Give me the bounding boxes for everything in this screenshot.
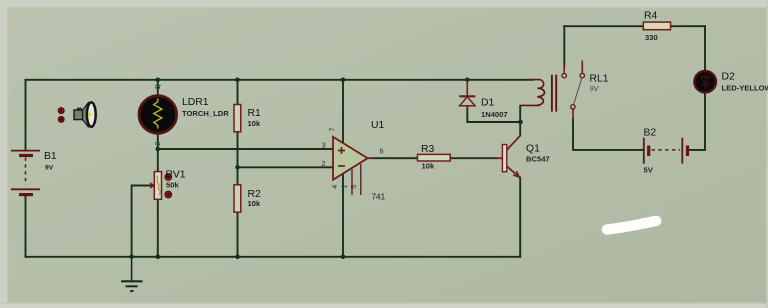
svg-text:D2: D2 [722, 72, 736, 83]
junction node B (R1 / R2 / pin 2) [235, 165, 240, 170]
wire B1 left vertical [25, 80, 27, 257]
LED D2 [694, 71, 716, 93]
relay coil RL1 [521, 75, 557, 112]
pin stub Q1 base [496, 157, 503, 159]
wire R3 to Q1 base [450, 157, 496, 159]
svg-text:5V: 5V [644, 166, 654, 175]
svg-text:10k: 10k [248, 199, 261, 208]
svg-text:10k: 10k [248, 119, 261, 128]
junction top rail / D1 cathode [465, 78, 470, 83]
junction top rail / LDR1 [156, 78, 161, 83]
resistor R4 [643, 22, 670, 30]
svg-text:B2: B2 [644, 128, 657, 139]
svg-text:R4: R4 [644, 11, 658, 22]
wire bottom ground rail [26, 256, 521, 258]
svg-text:RV1: RV1 [166, 170, 186, 181]
svg-text:1: 1 [340, 185, 349, 189]
battery B1 [11, 148, 40, 197]
svg-text:LED-YELLOW: LED-YELLOW [722, 84, 768, 93]
svg-text:2: 2 [155, 142, 162, 146]
svg-text:R3: R3 [421, 144, 435, 155]
relay RL1 armature [574, 79, 582, 105]
potentiometer RV1 [154, 172, 161, 200]
pin stubs op-amp pins 1 and 5 [352, 164, 361, 195]
resistor R2 [234, 185, 241, 212]
RV1 wiper arrow [150, 182, 156, 189]
svg-text:TORCH_LDR: TORCH_LDR [182, 109, 229, 118]
svg-text:RL1: RL1 [590, 74, 609, 85]
junction ground rail / RV1 bottom [156, 254, 161, 259]
svg-text:9V: 9V [590, 84, 600, 93]
wire relay coil bottom to Q1 collector [519, 106, 521, 136]
wire R4 loop to D2 anode [704, 26, 706, 70]
LDR LDR1 [139, 85, 177, 133]
resistor R1 [234, 105, 241, 132]
svg-text:BC547: BC547 [526, 155, 550, 164]
battery B2 [644, 138, 688, 164]
svg-text:9V: 9V [45, 165, 54, 172]
wire op-amp pin 6 output to R3 [372, 157, 418, 159]
svg-text:10k: 10k [422, 162, 435, 171]
svg-text:D1: D1 [481, 98, 495, 109]
wire left contact drop [563, 26, 565, 66]
wire node B to op-amp pin 2 [238, 166, 334, 168]
svg-text:1: 1 [155, 86, 162, 90]
svg-text:4: 4 [330, 185, 339, 189]
svg-text:2: 2 [322, 159, 326, 168]
wire relay pole to B2 negative [573, 119, 644, 150]
wire op-amp pin 4 to ground rail [342, 174, 344, 257]
diode D1 [459, 80, 475, 110]
junction ground rail / R2 bottom [235, 254, 240, 259]
junction D1 / relay coil / collector [518, 120, 523, 125]
wire RV1 wiper to ground rail [132, 186, 154, 257]
svg-text:6: 6 [380, 147, 384, 156]
svg-text:Q1: Q1 [526, 144, 540, 155]
svg-text:B1: B1 [44, 151, 57, 162]
junction ground rail / ground symbol [129, 254, 134, 259]
svg-text:LDR1: LDR1 [182, 97, 209, 108]
svg-text:50k: 50k [166, 181, 179, 190]
junction top rail / op-amp pin 7 [341, 78, 346, 83]
wire LDR1 / RV1 vertical [157, 80, 159, 257]
wire Q1 emitter to ground rail [519, 178, 521, 257]
op-amp U1 [333, 137, 368, 180]
svg-text:5: 5 [349, 185, 358, 189]
svg-text:7: 7 [328, 128, 337, 132]
wire D1 anode branch [467, 106, 520, 122]
wire node A to op-amp pin 3 [158, 148, 333, 150]
white eraser mark [607, 221, 656, 230]
speaker LS1 body [74, 102, 96, 126]
transistor Q1 [502, 136, 520, 178]
junction node A (LDR1 / RV1 / pin 3) [156, 147, 161, 152]
svg-text:U1: U1 [371, 120, 385, 131]
relay RL1 switch contacts [562, 61, 585, 120]
RV1 adjust buttons [165, 174, 172, 198]
wire R1/R2 vertical [237, 80, 239, 257]
svg-text:3: 3 [322, 141, 326, 150]
speaker LS1 terminal pins [58, 108, 64, 123]
svg-text:1N4007: 1N4007 [481, 110, 508, 119]
svg-text:330: 330 [645, 33, 658, 42]
wire D2 cathode to B2 positive [689, 93, 705, 150]
svg-text:741: 741 [372, 193, 386, 202]
junction ground rail / op-amp pin 4 [341, 254, 346, 259]
wire op-amp pin 7 to top rail [342, 80, 344, 143]
ground [121, 257, 143, 291]
wire top +9V rail [26, 79, 534, 81]
resistor R3 [418, 154, 451, 161]
wire relay contact top loop [564, 25, 705, 27]
svg-text:R1: R1 [248, 108, 262, 119]
pin stub op-amp pin 6 [368, 157, 373, 159]
junction top rail / R1 [235, 78, 240, 83]
